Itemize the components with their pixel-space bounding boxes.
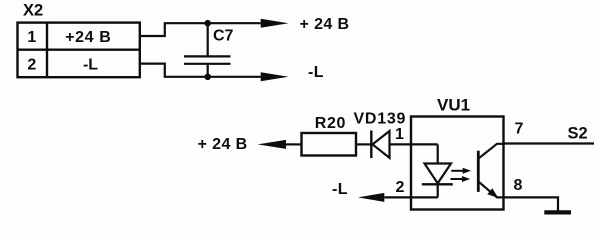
svg-text:+ 24 В: + 24 В: [300, 16, 350, 33]
svg-text:-L: -L: [308, 64, 324, 81]
wire from X2 pin 2 to -L rail: [140, 64, 261, 77]
arrow -L rail output: [261, 72, 289, 81]
wire R20 to VD139: [356, 143, 371, 145]
svg-text:1: 1: [27, 29, 36, 46]
svg-text:R20: R20: [315, 115, 346, 132]
diode VD139 cathode bar: [370, 131, 372, 159]
svg-text:S2: S2: [568, 124, 588, 142]
phototransistor emitter: [479, 182, 504, 198]
pin 7 wire to S2: [504, 142, 594, 144]
phototransistor collector: [479, 144, 504, 158]
wire arrow to VU1 pin 2 (continues inside box to LED): [384, 196, 437, 198]
LED anode lead: [437, 144, 439, 163]
light arrow upper: [451, 168, 471, 174]
svg-text:VU1: VU1: [437, 96, 470, 115]
svg-text:VD139: VD139: [354, 111, 407, 128]
svg-text:C7: C7: [213, 28, 234, 45]
svg-text:+ 24 В: + 24 В: [198, 136, 248, 153]
junction dot top: [204, 20, 211, 27]
ground: [544, 210, 571, 214]
connector X2 body: [18, 23, 140, 78]
wire from X2 pin 1 to +24 rail: [140, 23, 261, 36]
svg-text:2: 2: [27, 56, 36, 73]
phototransistor base bar: [477, 151, 480, 192]
svg-text:X2: X2: [23, 2, 43, 20]
diode VD139 triangle: [373, 131, 390, 158]
arrow +24 rail output: [261, 19, 289, 28]
wire arrow to R20: [286, 143, 302, 145]
optocoupler VU1 box: [411, 117, 504, 210]
svg-text:8: 8: [514, 177, 523, 194]
svg-text:7: 7: [515, 121, 524, 138]
pin 8 wire to ground: [504, 197, 559, 211]
LED triangle: [425, 164, 452, 184]
arrow to +24 В (left pointing): [258, 140, 286, 149]
emitter arrowhead: [487, 188, 498, 198]
LED cathode bar: [422, 183, 453, 185]
wire VD139 to VU1 pin 1 (continues inside box): [390, 143, 438, 145]
arrow to -L (left pointing): [358, 193, 384, 202]
LED cathode lead: [437, 184, 439, 197]
svg-text:2: 2: [396, 179, 405, 196]
svg-text:-L: -L: [332, 181, 348, 198]
svg-text:-L: -L: [83, 56, 98, 73]
svg-text:+24 В: +24 В: [65, 29, 111, 46]
junction dot bottom: [204, 74, 211, 81]
capacitor C7: [184, 23, 231, 77]
svg-text:1: 1: [395, 126, 404, 143]
resistor R20: [302, 133, 357, 156]
light arrow lower: [451, 176, 471, 182]
